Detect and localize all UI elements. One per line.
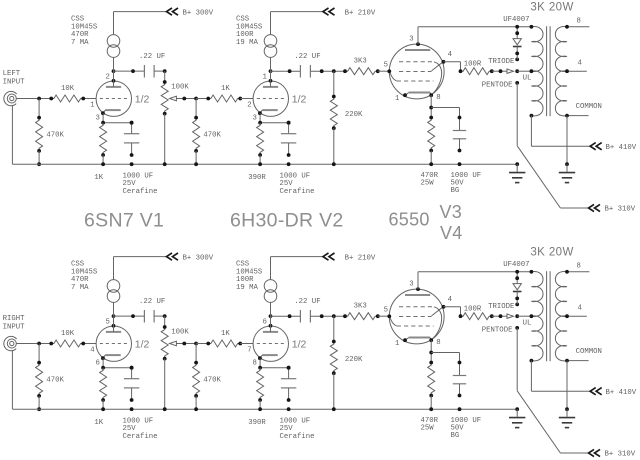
capacitor 1000 UF 25V Cerafine (stage 1) bbox=[123, 366, 158, 441]
resistor 470R 25W cathode bbox=[421, 361, 439, 433]
svg-text:.22 UF: .22 UF bbox=[139, 53, 165, 61]
svg-text:UF4007: UF4007 bbox=[503, 261, 529, 269]
svg-text:8: 8 bbox=[436, 339, 440, 347]
svg-text:V3: V3 bbox=[440, 202, 463, 222]
tube 6550 beam power bbox=[384, 280, 453, 347]
resistor 1K cathode (stage 1) bbox=[94, 368, 106, 427]
secondary common ground wire bbox=[566, 361, 568, 410]
ground bus wire bbox=[12, 351, 517, 410]
potentiometer 100K volume bbox=[161, 316, 198, 411]
svg-text:470K: 470K bbox=[203, 132, 221, 140]
plate wire V3 to output transformer bbox=[418, 27, 531, 44]
svg-text:B+ 300V: B+ 300V bbox=[183, 254, 214, 262]
svg-text:8: 8 bbox=[436, 94, 440, 102]
svg-text:10M45S: 10M45S bbox=[236, 23, 263, 31]
svg-text:10M45S: 10M45S bbox=[236, 268, 263, 276]
svg-text:COMMON: COMMON bbox=[576, 103, 602, 111]
CSS value label CSS 10M45S 100R 19 MA bbox=[236, 261, 263, 293]
plate wire V3 to output transformer bbox=[418, 272, 531, 289]
svg-text:B+ 310V: B+ 310V bbox=[605, 451, 636, 459]
svg-text:6SN7 V1: 6SN7 V1 bbox=[84, 210, 164, 232]
svg-text:TRIODE: TRIODE bbox=[488, 303, 514, 311]
svg-text:PENTODE: PENTODE bbox=[482, 327, 513, 335]
svg-text:5: 5 bbox=[106, 318, 110, 326]
B+ rail B+ 300V bbox=[167, 8, 214, 17]
svg-text:3: 3 bbox=[96, 115, 100, 123]
svg-text:1: 1 bbox=[90, 101, 95, 109]
svg-text:7 MA: 7 MA bbox=[71, 39, 89, 47]
tube label 6H30-DR V2 bbox=[230, 210, 344, 232]
cathode pin 8 network wires bbox=[429, 95, 459, 117]
ground (speaker common) bbox=[559, 407, 575, 427]
svg-text:100K: 100K bbox=[171, 83, 189, 91]
svg-text:B+ 210V: B+ 210V bbox=[345, 254, 376, 262]
svg-text:1K: 1K bbox=[221, 85, 230, 93]
svg-text:4: 4 bbox=[448, 51, 453, 59]
svg-text:PENTODE: PENTODE bbox=[482, 82, 513, 90]
svg-text:B+ 310V: B+ 310V bbox=[605, 206, 636, 214]
svg-text:COMMON: COMMON bbox=[576, 348, 602, 356]
resistor 1K grid stopper (stage 2) bbox=[196, 330, 253, 347]
svg-text:Cerafine: Cerafine bbox=[280, 433, 315, 441]
svg-text:1/2: 1/2 bbox=[292, 93, 307, 105]
svg-text:1K: 1K bbox=[221, 330, 230, 338]
svg-text:V4: V4 bbox=[440, 223, 463, 243]
svg-text:.22 UF: .22 UF bbox=[139, 298, 165, 306]
plate lead of V2 bbox=[269, 314, 273, 327]
svg-text:4: 4 bbox=[448, 296, 453, 304]
potentiometer 100K volume bbox=[161, 71, 198, 166]
svg-text:25V: 25V bbox=[280, 425, 294, 433]
svg-text:3K 20W: 3K 20W bbox=[530, 2, 573, 14]
svg-text:3K 20W: 3K 20W bbox=[530, 247, 573, 259]
svg-text:4: 4 bbox=[578, 305, 583, 313]
svg-text:6: 6 bbox=[96, 360, 100, 368]
svg-text:100K: 100K bbox=[171, 328, 189, 336]
capacitor .22 UF coupling (stage 2) bbox=[271, 298, 346, 322]
wire primary to B+ 410V bbox=[531, 116, 636, 152]
svg-text:1: 1 bbox=[263, 73, 268, 81]
stage1 cathode network wires bbox=[101, 358, 133, 369]
plate lead of V2 bbox=[269, 69, 273, 83]
resistor 10K grid stopper bbox=[49, 85, 85, 102]
resistor 100R screen bbox=[459, 306, 494, 320]
svg-text:1K: 1K bbox=[94, 174, 103, 182]
CSS value label CSS 10M45S 470R 7 MA bbox=[71, 16, 98, 48]
secondary tap COMMON bbox=[565, 103, 602, 117]
capacitor 1000 UF 25V Cerafine (stage 1) bbox=[123, 121, 158, 196]
svg-text:Cerafine: Cerafine bbox=[123, 188, 158, 196]
svg-text:1: 1 bbox=[395, 95, 400, 103]
pentode mode wire to B+ 310V bbox=[517, 328, 636, 459]
svg-text:UL: UL bbox=[523, 75, 532, 83]
wire jack to grid of V1 (node A) bbox=[16, 342, 96, 346]
svg-text:UF4007: UF4007 bbox=[503, 16, 529, 24]
current source CSS 10M45S bbox=[264, 257, 323, 332]
input jack LEFT INPUT bbox=[3, 70, 26, 106]
svg-text:UL: UL bbox=[523, 320, 532, 328]
svg-text:100R: 100R bbox=[236, 31, 254, 39]
svg-text:CSS: CSS bbox=[71, 16, 85, 24]
svg-text:5: 5 bbox=[384, 307, 388, 315]
svg-text:1000 UF: 1000 UF bbox=[123, 172, 154, 180]
svg-text:220K: 220K bbox=[345, 111, 363, 119]
resistor 100R screen bbox=[459, 61, 494, 75]
svg-text:10K: 10K bbox=[61, 330, 75, 338]
svg-text:Cerafine: Cerafine bbox=[123, 433, 158, 441]
svg-text:3: 3 bbox=[409, 35, 413, 43]
tube label 6550 bbox=[389, 210, 430, 230]
B+ rail B+ 210V bbox=[323, 8, 376, 17]
screen pin 4 wire bbox=[444, 62, 461, 71]
stage2 cathode network wires bbox=[258, 113, 290, 124]
svg-text:5: 5 bbox=[384, 62, 388, 70]
resistor 10K grid stopper bbox=[49, 330, 85, 347]
svg-text:8: 8 bbox=[253, 360, 257, 368]
svg-text:B+ 410V: B+ 410V bbox=[606, 389, 637, 397]
svg-text:2: 2 bbox=[247, 101, 251, 109]
capacitor .22 UF coupling (stage 1) bbox=[114, 298, 167, 322]
resistor 1K grid stopper (stage 2) bbox=[196, 85, 253, 102]
plate lead of V1 bbox=[112, 69, 116, 83]
svg-text:B+ 300V: B+ 300V bbox=[183, 9, 214, 17]
svg-text:1/2: 1/2 bbox=[135, 338, 150, 350]
svg-text:3: 3 bbox=[409, 280, 413, 288]
svg-text:6550: 6550 bbox=[389, 210, 430, 230]
secondary tap 4 ohm bbox=[565, 60, 587, 73]
svg-text:8: 8 bbox=[577, 18, 581, 26]
tube 6550 beam power bbox=[384, 35, 453, 102]
output transformer 3K 20W bbox=[530, 2, 574, 118]
stage1 cathode network wires bbox=[101, 113, 133, 124]
svg-text:CSS: CSS bbox=[236, 261, 250, 269]
svg-text:470K: 470K bbox=[46, 132, 64, 140]
svg-text:8: 8 bbox=[577, 263, 581, 271]
svg-text:390R: 390R bbox=[248, 419, 266, 427]
svg-text:100R: 100R bbox=[464, 306, 482, 314]
svg-text:.22 UF: .22 UF bbox=[294, 298, 320, 306]
ground (signal bus) bbox=[509, 162, 525, 182]
svg-text:25V: 25V bbox=[280, 180, 294, 188]
svg-text:CSS: CSS bbox=[71, 261, 85, 269]
resistor 470R 25W cathode bbox=[421, 116, 439, 188]
svg-text:470R: 470R bbox=[71, 276, 89, 284]
wire jack to grid of V1 (node A) bbox=[16, 97, 96, 101]
svg-text:BG: BG bbox=[451, 187, 460, 195]
ground (speaker common) bbox=[559, 162, 575, 182]
stage2 cathode network wires bbox=[258, 358, 290, 369]
svg-text:1: 1 bbox=[395, 340, 400, 348]
svg-text:25V: 25V bbox=[123, 425, 137, 433]
svg-text:470K: 470K bbox=[46, 377, 64, 385]
diode UF4007 bbox=[503, 16, 529, 59]
svg-text:1000 UF: 1000 UF bbox=[123, 417, 154, 425]
svg-text:25W: 25W bbox=[421, 424, 435, 432]
current source CSS 10M45S bbox=[107, 257, 166, 332]
svg-text:10M45S: 10M45S bbox=[71, 23, 98, 31]
CSS value label CSS 10M45S 100R 19 MA bbox=[236, 16, 263, 48]
svg-text:10M45S: 10M45S bbox=[71, 268, 98, 276]
resistor 470K bbox=[193, 344, 222, 412]
resistor 470K bbox=[193, 99, 222, 167]
mode switch TRIODE/UL/PENTODE bbox=[482, 303, 532, 335]
tube label 6SN7 V1 bbox=[84, 210, 164, 232]
resistor 3K3 grid (output stage) bbox=[343, 58, 389, 75]
tube label V3 bbox=[440, 202, 463, 222]
svg-text:3K3: 3K3 bbox=[354, 58, 367, 66]
capacitor 1000 UF 25V Cerafine (stage 2) bbox=[280, 121, 315, 196]
secondary tap COMMON bbox=[565, 348, 602, 362]
svg-text:4: 4 bbox=[578, 60, 583, 68]
svg-text:CSS: CSS bbox=[236, 16, 250, 24]
svg-text:470R: 470R bbox=[71, 31, 89, 39]
capacitor .22 UF coupling (stage 1) bbox=[114, 53, 167, 77]
output transformer 3K 20W bbox=[530, 247, 574, 363]
resistor 220K bbox=[330, 71, 363, 166]
resistor 470K bbox=[36, 99, 65, 167]
svg-text:BG: BG bbox=[451, 432, 460, 440]
svg-text:B+ 210V: B+ 210V bbox=[345, 9, 376, 17]
svg-text:INPUT: INPUT bbox=[3, 78, 26, 86]
secondary tap 4 ohm bbox=[565, 305, 587, 318]
resistor 220K bbox=[330, 316, 363, 411]
svg-text:INPUT: INPUT bbox=[3, 323, 26, 331]
svg-text:1K: 1K bbox=[94, 419, 103, 427]
tube triode half, pins 6/7/8 bbox=[247, 318, 306, 367]
svg-text:2: 2 bbox=[106, 73, 110, 81]
capacitor 1000 UF 50V BG bypass bbox=[451, 116, 482, 195]
resistor 470K bbox=[36, 344, 65, 412]
svg-text:390R: 390R bbox=[248, 174, 266, 182]
tube triode half, pins 5/4/6 bbox=[90, 318, 149, 367]
svg-text:B+ 410V: B+ 410V bbox=[606, 144, 637, 152]
svg-text:100R: 100R bbox=[464, 61, 482, 69]
tube triode half, pins 1/2/3 bbox=[247, 73, 306, 122]
ground (signal bus) bbox=[509, 407, 525, 427]
B+ rail B+ 300V bbox=[167, 253, 214, 262]
svg-text:7 MA: 7 MA bbox=[71, 284, 89, 292]
secondary tap 8 ohm bbox=[565, 263, 589, 274]
mode switch TRIODE/UL/PENTODE bbox=[482, 58, 532, 90]
resistor 1K cathode (stage 1) bbox=[94, 123, 106, 182]
svg-text:19 MA: 19 MA bbox=[236, 39, 259, 47]
svg-text:6H30-DR V2: 6H30-DR V2 bbox=[230, 210, 344, 232]
pentode mode wire to B+ 310V bbox=[517, 83, 636, 214]
wire primary to B+ 410V bbox=[531, 361, 636, 397]
svg-text:25V: 25V bbox=[123, 180, 137, 188]
B+ rail B+ 210V bbox=[323, 253, 376, 262]
tube triode half, pins 2/1/3 bbox=[90, 73, 149, 122]
current source CSS 10M45S bbox=[107, 12, 166, 87]
plate lead of V1 bbox=[112, 314, 116, 327]
tube label V4 bbox=[440, 223, 463, 243]
secondary tap 8 ohm bbox=[565, 18, 589, 29]
ground bus wire bbox=[12, 106, 517, 165]
resistor 390R cathode (stage 2) bbox=[248, 123, 266, 182]
CSS value label CSS 10M45S 470R 7 MA bbox=[71, 261, 98, 293]
svg-text:.22 UF: .22 UF bbox=[294, 53, 320, 61]
svg-text:TRIODE: TRIODE bbox=[488, 58, 514, 66]
capacitor 1000 UF 25V Cerafine (stage 2) bbox=[280, 366, 315, 441]
capacitor 1000 UF 50V BG bypass bbox=[451, 361, 482, 440]
svg-text:6: 6 bbox=[263, 318, 267, 326]
screen pin 4 wire bbox=[444, 307, 461, 316]
svg-text:10K: 10K bbox=[61, 85, 75, 93]
svg-text:LEFT: LEFT bbox=[3, 70, 21, 78]
resistor 390R cathode (stage 2) bbox=[248, 368, 266, 427]
resistor 3K3 grid (output stage) bbox=[343, 303, 389, 320]
input jack RIGHT INPUT bbox=[3, 315, 26, 351]
svg-text:3: 3 bbox=[253, 115, 257, 123]
svg-text:220K: 220K bbox=[345, 356, 363, 364]
svg-text:1000 UF: 1000 UF bbox=[280, 172, 311, 180]
svg-text:100R: 100R bbox=[236, 276, 254, 284]
diode UF4007 bbox=[503, 261, 529, 304]
svg-text:25W: 25W bbox=[421, 179, 435, 187]
svg-text:RIGHT: RIGHT bbox=[3, 315, 26, 323]
svg-text:1000 UF: 1000 UF bbox=[280, 417, 311, 425]
svg-text:3K3: 3K3 bbox=[354, 303, 367, 311]
svg-text:7: 7 bbox=[247, 346, 251, 354]
current source CSS 10M45S bbox=[264, 12, 323, 87]
svg-text:1/2: 1/2 bbox=[135, 93, 150, 105]
svg-text:19 MA: 19 MA bbox=[236, 284, 259, 292]
svg-text:470K: 470K bbox=[203, 377, 221, 385]
secondary common ground wire bbox=[566, 116, 568, 165]
svg-text:4: 4 bbox=[90, 346, 95, 354]
capacitor .22 UF coupling (stage 2) bbox=[271, 53, 346, 77]
svg-text:Cerafine: Cerafine bbox=[280, 188, 315, 196]
cathode pin 8 network wires bbox=[429, 340, 459, 362]
svg-text:1/2: 1/2 bbox=[292, 338, 307, 350]
